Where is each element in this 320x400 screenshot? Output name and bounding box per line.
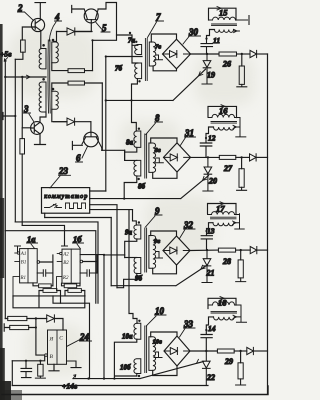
gate arrow ch1 [199,72,203,76]
9a bottom to bypass [125,239,137,255]
svg-text:6: 6 [76,153,81,163]
svg-text:Я: Я [49,337,54,343]
power terminal T above VT2 [35,3,46,19]
transistor VT2 [31,18,44,31]
label 9 [146,206,163,227]
VT3 emitter ground [35,134,46,145]
label 2 [17,3,34,21]
junction dot ch4 [205,350,207,352]
node dot ch3 [240,249,242,251]
bridge 33 [164,336,190,366]
resistor R24b [4,324,36,331]
T10 core [145,326,147,373]
transformer T4 primary winding a [39,49,46,69]
VT2 emitter wire [40,31,42,49]
7a dot [135,41,137,43]
T17 right ground [234,214,244,229]
T18 upper coil [208,302,236,305]
T17 upper coil [208,212,237,215]
svg-text:14: 14 [208,324,216,333]
T7 core [145,39,147,81]
svg-text:R2: R2 [62,276,69,281]
T16 upper coil [208,114,237,117]
commutator out4 [90,209,133,211]
svg-text:+14в: +14в [62,382,78,391]
bottom ground rail [12,385,208,387]
T4 winding b dot [42,78,45,81]
transformer T4 primary winding b [39,82,46,112]
label 6 [76,147,88,164]
flip-flop 1b box [62,249,80,283]
bridge 30 [163,39,191,69]
T10 secondary 10v [149,337,156,371]
T4 winding a dot [42,44,45,47]
junction dots [4,76,23,78]
thyristor 21 [202,250,212,282]
commutator bottom pin [44,213,46,217]
T7 winding 7a [135,45,142,55]
node dot ch2 [240,156,242,158]
bottom-left wire y361 [12,356,44,361]
label 1b [73,234,84,249]
bus y225.4 [22,225,64,245]
svg-text:30: 30 [188,27,199,37]
svg-text:А1: А1 [20,252,27,257]
9b bottom staircase [117,274,137,288]
1b pin labels [62,253,69,282]
T15 lower-right arrow [234,29,240,32]
1a input pin circle [15,252,20,254]
flip-flop 1a box [20,249,38,283]
T18 right ground [234,305,246,322]
T10 winding 10b [134,359,141,374]
T17 lower coil [213,223,234,226]
7v bottom hook to bridge [153,66,176,71]
svg-text:23: 23 [58,166,69,176]
capacitor 12 [200,138,212,157]
block 24 box [48,330,67,364]
commutator label 23 [50,166,71,188]
svg-text:9: 9 [155,206,160,216]
svg-text:26: 26 [222,60,231,69]
9v bottom hook to bridge [153,265,177,274]
7v top to bridge [151,34,176,42]
+14v feed wire [73,362,204,379]
label 1a [27,234,38,248]
1b R2 pin stub [57,277,63,291]
resistor 29 [217,349,246,353]
left loop vertical [11,361,13,386]
svg-text:4: 4 [54,12,60,22]
svg-text:29: 29 [224,357,233,366]
gate arrow ch2 [203,176,207,180]
9v center tap ground [155,252,163,259]
T8 secondary 8v [149,143,156,172]
1a clock terminal [15,246,21,252]
1b clock terminal [62,245,68,247]
switch symbol inside [45,204,62,208]
8a dot [138,128,140,130]
resistor under VT3 [20,128,25,226]
T4 winding b to VT3 collector [40,112,46,122]
resistor 29b vertical [236,351,246,385]
T7 winding 7b [135,63,142,79]
8b bottom step to out2 [124,176,137,199]
svg-text:31: 31 [184,128,194,138]
thyristor 19 [202,54,212,84]
output diode ch3 [250,247,267,254]
resistor R top (to x93) [68,69,93,73]
diode B [54,118,91,125]
svg-text:7а: 7а [128,37,136,45]
svg-text:2: 2 [17,3,23,13]
1b B2 pin stub [57,261,62,263]
T16 lower-right arrow [233,125,237,128]
T4 core [48,40,50,113]
VT5 left terminal tick [72,6,84,13]
capacitor 13 [201,231,212,250]
capacitor C24 [21,361,32,378]
label 7 [148,12,164,38]
transistor VT5 [84,9,98,23]
label 8 [146,113,163,135]
svg-text:9а: 9а [125,229,133,237]
output diode ch1 [250,50,268,57]
svg-text:R1: R1 [20,276,27,281]
resistor 26b vertical [237,54,247,87]
T17 top loop [208,204,237,215]
svg-text:1б: 1б [73,234,82,244]
10a dot [138,320,140,322]
T8 winding 8b [134,160,141,176]
resistor A2 under 1a [39,289,61,304]
resistor R24a [5,316,46,320]
scan edge bar left [0,24,22,400]
bus y230.7 [5,231,96,304]
10b bottom dot [138,375,140,377]
vertical x36 to B pin [36,319,44,356]
1b top step to bus104 [80,255,104,379]
resistor vertical R24c [35,361,45,378]
node dot ch1 [241,53,243,55]
T17 lower-left to cap 13 [207,223,214,231]
svg-text:В1: В1 [21,261,27,266]
8a bottom to bypass [125,147,137,160]
10a bottom to bypass [114,339,136,378]
bridge 30 output [191,53,220,55]
transformer T4 secondary winding d [52,91,59,109]
junction dots bottom cluster [25,360,105,380]
8v center tap ground [155,158,163,163]
svg-text:12: 12 [208,134,216,143]
resistor 28b vertical [236,250,246,282]
transistor VT3 [31,122,44,135]
diode A anode hook to T4 [54,32,57,42]
+5v supply rail left [4,60,6,319]
bridge 32 output [190,249,218,251]
gate arrow ch3 [201,265,205,269]
T16 lower-left to cap 12 [206,127,214,138]
svg-text:+5в: +5в [0,50,12,59]
svg-text:28: 28 [222,257,231,266]
VT5 emitter to diode A [75,20,91,32]
bus y217.5 [45,217,112,219]
commutator out1 [90,190,106,192]
1a R1 pin stub [13,277,20,296]
VT6 emitter to y150 [101,148,103,151]
svg-text:10б: 10б [120,364,131,372]
commutator out3 [90,205,117,288]
T9 secondary 9v [149,236,156,269]
svg-text:В2: В2 [63,261,69,266]
commutator out2 [90,176,209,199]
bus x129 down to T10 [129,210,137,324]
rail second left [14,59,16,222]
output diode ch2 [250,154,268,161]
label 30 [183,27,201,44]
10b bottom stem [136,374,138,377]
T15 right terminal [236,16,249,25]
resistor 27 [219,155,249,159]
T15 lower coil [215,30,234,33]
bridge 32 [163,236,190,265]
diode D24 [47,315,63,330]
1b output circle [80,260,83,263]
bus y221.9 [15,222,98,303]
bus y308 [13,296,85,308]
resistor under VT2 base [21,40,26,52]
+14v arrow tick [73,375,76,379]
+5v arrow tick [4,58,7,62]
T7 secondary 7v [149,42,156,66]
label 32 [180,220,196,239]
svg-text:27: 27 [223,164,233,173]
svg-text:7б: 7б [115,65,123,73]
feed arrow [27,75,31,79]
svg-text:22: 22 [206,373,215,382]
T4 winding d dot [52,88,55,91]
gate arrow ch4 [197,359,201,363]
7a top stub [132,45,138,63]
resistor R bottom (to x102) [68,81,102,85]
svg-text:33: 33 [183,319,194,329]
T18 core [211,311,237,313]
bus x106 down to commutator [105,57,107,192]
1b output wire [83,255,97,273]
bottom border line [2,386,268,395]
1a pin labels [20,252,27,281]
T15 lower-left to cap 11 [207,30,215,39]
capacitor after 1b [80,270,97,277]
10v bottom hook to bridge [153,366,177,376]
1b input pin circle [57,252,62,254]
resistor 27b vertical [237,157,247,190]
VT3 base rail [22,77,30,128]
svg-text:С: С [59,336,63,342]
T9 winding 9a [134,225,141,239]
T18 loop arrow [220,297,224,301]
svg-text:10: 10 [155,306,165,316]
label 3 [23,104,34,122]
output diode ch4 [247,347,268,354]
T16 top loop [208,106,237,117]
node dot ch4 [239,350,241,352]
bypass T8 a-b [124,150,126,160]
24 right pin to ground [67,361,82,368]
9v top to bridge [151,231,177,236]
svg-text:коммутатор: коммутатор [44,193,87,200]
T17 loop arrow [220,202,224,206]
T4 winding d top output [52,83,68,91]
T15 upper coil [209,17,237,20]
junction dot ch3 [206,249,208,251]
T4 winding c output to R [52,63,68,71]
1a B1 pin stub [15,261,20,263]
capacitor 11 [201,39,213,54]
7v center tap ground [155,55,163,60]
bus x132 to T9a [133,210,137,225]
10v top to bridge [151,332,177,337]
24 B pin circle [45,354,48,357]
resistor 26 [219,52,250,56]
T18 lower coil [214,317,235,320]
T15 top loop [209,8,237,20]
label 24 [67,332,92,347]
svg-text:32: 32 [183,220,194,230]
capacitor 14 [201,330,212,351]
gate line ch3 [111,265,207,286]
10v center tap ground [154,352,162,358]
svg-text:24: 24 [79,332,90,342]
right output bus [267,54,269,394]
svg-text:11: 11 [213,36,220,45]
svg-text:8а: 8а [126,139,134,147]
bus x111 down [110,218,112,286]
thyristor 20 [203,157,213,191]
T8 core [145,134,147,178]
8v bottom hook to bridge [153,172,177,178]
square wave symbol inside [66,203,86,209]
T16 loop arrow [221,105,225,109]
T4 winding d bottom to diode B [52,109,67,121]
svg-text:1а: 1а [27,234,36,244]
VT6 base terminal [72,142,82,150]
feed wire T7 center [106,56,142,58]
svg-text:19: 19 [207,71,215,80]
1a output wire [40,255,53,286]
label 4 [49,12,61,41]
capacitor after 1a [37,270,53,277]
resistor 28 [218,248,250,252]
T9 core [145,228,147,272]
bus y303 [53,296,90,379]
1a output circle [37,261,40,264]
bridge 31 [164,143,191,172]
T18 lower-left to cap 14 [206,317,213,330]
resistor B2 under 1b [65,289,85,296]
T9 winding 9b [134,258,141,274]
label 10 [146,306,166,326]
label 33 [180,319,196,337]
junction dots wiring [14,38,207,380]
7b bottom dot [138,80,140,82]
svg-text:А2: А2 [62,253,69,258]
T15 core [212,24,237,26]
svg-text:10а: 10а [122,333,133,341]
junction dot ch1 [206,53,208,55]
T17 core [211,217,237,219]
VT5 collector loop to T7 [93,3,117,71]
resistor A1 under 1a [33,283,53,288]
wire 9 feed from bus104 [104,255,125,258]
diode B to VT6 collector [90,122,92,133]
svg-text:В: В [50,354,54,360]
T18 lower-right arrow [233,315,237,318]
label 5 [96,23,110,34]
junction dot [35,317,37,319]
feed wire T8 (y150) [102,149,125,151]
gate line ch1 [106,69,206,100]
svg-text:20: 20 [208,177,217,186]
T16 lower coil [214,127,235,130]
junction dot ch2 [207,156,209,158]
transistor VT6 [82,132,102,148]
bridge 33 output [190,350,217,352]
7b bottom step to gate line [132,79,138,101]
svg-text:7: 7 [156,12,161,22]
wire resistor to rail [15,52,23,59]
svg-text:8б: 8б [138,183,146,191]
9a dot [138,221,140,223]
bus y296 [13,295,85,297]
24 ground pin [49,364,59,371]
svg-text:8: 8 [155,113,160,123]
T18 top loop [208,298,236,308]
+5v feed to T4 tap [5,76,46,78]
resistor B1 under 1b [62,283,81,287]
T17 lower-right arrow [233,221,237,224]
T16 right ground [234,118,246,137]
thyristor 22 [203,351,211,386]
left terminal tick mid [3,113,15,120]
bridge 31 output [191,156,220,158]
junction dot [105,99,107,101]
commutator box [42,188,90,214]
T8 winding 8a [134,131,141,147]
24 pin labels [49,336,64,361]
9b top stub [125,257,137,259]
T4 winding c dot [52,39,55,42]
svg-text:15: 15 [219,8,228,18]
8v top to bridge [151,138,177,143]
stub to T7a top [117,35,133,45]
T10 winding 10a [134,323,141,339]
VT2 base wire [22,27,31,40]
label 31 [180,128,196,146]
transformer T4 secondary winding c [52,42,59,63]
svg-text:3: 3 [23,104,29,114]
bus x102 (R bottom to y150) [101,83,103,150]
8b bottom dot [138,178,140,180]
T16 core [211,122,237,124]
diode A [57,28,93,35]
svg-text:5: 5 [102,23,107,33]
9b bottom dot [138,275,140,277]
T15 loop arrow [217,7,221,11]
8a top step from x132 [132,100,137,131]
